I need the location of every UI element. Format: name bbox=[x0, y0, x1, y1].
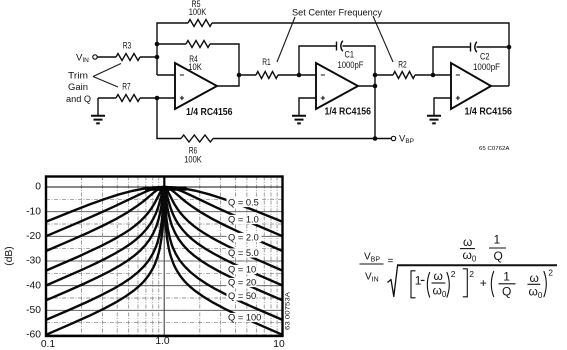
chart horizontal gridlines bbox=[46, 187, 283, 335]
svg-text:ω0: ω0 bbox=[529, 285, 543, 301]
svg-text:R3: R3 bbox=[123, 41, 132, 52]
svg-text:-50: -50 bbox=[26, 305, 41, 316]
svg-text:Q = 10: Q = 10 bbox=[228, 264, 256, 274]
svg-text:ω: ω bbox=[530, 271, 539, 285]
wire: top feedback right segment down to U3 output bbox=[212, 23, 509, 86]
wire: R1 to U2 minus input bbox=[278, 74, 316, 76]
svg-text:Q = 50: Q = 50 bbox=[228, 291, 256, 301]
svg-text:1: 1 bbox=[503, 270, 510, 284]
svg-text:10: 10 bbox=[273, 339, 285, 350]
curve Q=0.5 bbox=[46, 187, 283, 222]
svg-text:Q: Q bbox=[494, 249, 503, 263]
svg-text:Gain: Gain bbox=[68, 82, 88, 93]
svg-text:ω0: ω0 bbox=[433, 284, 447, 300]
svg-text:100K: 100K bbox=[189, 7, 207, 18]
leader line Set to R1 bbox=[277, 17, 295, 62]
eq denominator bracket [ bbox=[411, 271, 416, 298]
svg-text:-40: -40 bbox=[26, 280, 41, 291]
chart border bbox=[46, 177, 283, 337]
svg-text:and Q: and Q bbox=[66, 94, 91, 105]
resistor R1 bbox=[256, 72, 278, 79]
chart: frequency response plot bbox=[4, 177, 292, 350]
svg-text:ω: ω bbox=[434, 269, 443, 283]
chart Q labels bbox=[227, 198, 262, 207]
svg-text:Q = 20: Q = 20 bbox=[228, 277, 256, 287]
svg-text:63 00753A: 63 00753A bbox=[286, 292, 292, 330]
equation VBP/VIN transfer function bbox=[360, 233, 558, 301]
resistor R3 bbox=[116, 54, 140, 61]
svg-text:Q = 2.0: Q = 2.0 bbox=[228, 232, 259, 242]
curve Q=5.0 bbox=[46, 187, 283, 271]
svg-text:Q = 1.0: Q = 1.0 bbox=[228, 214, 259, 224]
wire: R3 to summing node bbox=[140, 56, 157, 58]
ground G3 bbox=[427, 116, 441, 124]
svg-text:ω0: ω0 bbox=[463, 248, 477, 264]
op-amp U1 bbox=[175, 63, 217, 109]
svg-text:=: = bbox=[388, 256, 394, 267]
op-amp U3 bbox=[451, 63, 491, 109]
ground G2 wire bbox=[299, 98, 316, 115]
svg-text:Q = 0.5: Q = 0.5 bbox=[228, 197, 259, 207]
wire: C1 feedback left bbox=[299, 46, 336, 75]
eq radical sign bbox=[388, 266, 398, 297]
wire: VIN to R3 bbox=[97, 56, 116, 58]
svg-text:1/4 RC4156: 1/4 RC4156 bbox=[325, 107, 372, 118]
curve Q=20 bbox=[46, 187, 283, 300]
wire: to R2 bbox=[375, 74, 393, 76]
svg-text:R2: R2 bbox=[398, 60, 407, 71]
wire: bottom feedback to VBP terminal bbox=[213, 138, 391, 140]
resistor R2 bbox=[393, 72, 415, 79]
svg-text:65 C0762A: 65 C0762A bbox=[479, 146, 510, 152]
terminal VIN bbox=[93, 55, 97, 59]
svg-text:0.1: 0.1 bbox=[41, 339, 56, 350]
curve Q=100 bbox=[46, 187, 283, 335]
terminal VBP bbox=[391, 136, 395, 140]
wire: U3 output bbox=[491, 85, 509, 87]
wire: U1 output to R1 bbox=[239, 74, 256, 76]
svg-text:VBP: VBP bbox=[364, 252, 380, 264]
wire: C2 feedback right bbox=[477, 46, 510, 48]
eq bracket ] bbox=[463, 269, 468, 297]
svg-text:1000pF: 1000pF bbox=[338, 60, 364, 71]
svg-text:Set Center Frequency: Set Center Frequency bbox=[292, 8, 382, 18]
svg-text:Trim: Trim bbox=[68, 70, 88, 81]
curve Q=1.0 bbox=[46, 187, 283, 236]
svg-text:2: 2 bbox=[451, 269, 456, 279]
svg-text:C2: C2 bbox=[480, 52, 490, 63]
wire: plus node down to bottom feedback bbox=[157, 98, 181, 139]
resistor R6 bbox=[181, 135, 213, 142]
svg-text:2: 2 bbox=[469, 269, 474, 279]
ground G1 drop wire bbox=[97, 98, 99, 115]
svg-text:ω: ω bbox=[463, 235, 472, 249]
op-amp U2 bbox=[316, 63, 358, 109]
svg-text:1/4 RC4156: 1/4 RC4156 bbox=[186, 107, 233, 118]
svg-text:1.0: 1.0 bbox=[155, 336, 170, 347]
wire: C2 feedback left bbox=[433, 47, 470, 75]
eq paren ( second term bbox=[491, 271, 494, 297]
wire: ground to R7 bbox=[98, 97, 116, 99]
svg-text:+: + bbox=[480, 276, 487, 290]
eq main fraction bar bbox=[397, 264, 557, 266]
wire: U2 output bbox=[358, 85, 375, 87]
leader line Trim to R7 bbox=[93, 77, 118, 88]
junction dots stage1 bbox=[155, 42, 160, 47]
wire: R4 right side down to U1 output bbox=[210, 44, 239, 86]
ground G1 bbox=[91, 116, 105, 124]
svg-text:2: 2 bbox=[548, 268, 553, 278]
eq paren ( bbox=[427, 272, 430, 298]
resistor R5 bbox=[188, 20, 212, 27]
node dot U2 input bbox=[297, 73, 302, 78]
capacitor C2 bbox=[470, 43, 472, 52]
curve bundle flat top at peak bbox=[145, 186, 187, 190]
svg-text:-10: -10 bbox=[26, 206, 41, 217]
curve Q=2.0 bbox=[46, 187, 283, 251]
eq paren ) bbox=[447, 272, 450, 298]
svg-text:Q: Q bbox=[502, 285, 511, 299]
ground G2 bbox=[292, 116, 306, 124]
leader line Set to R2 bbox=[373, 16, 393, 62]
node dot U3 input bbox=[431, 73, 436, 78]
wire: C1 feedback right down to bottom wire bbox=[343, 46, 376, 139]
svg-text:VBP: VBP bbox=[399, 134, 414, 146]
svg-text:Q = 100: Q = 100 bbox=[228, 312, 261, 322]
svg-text:100K: 100K bbox=[184, 155, 202, 166]
svg-text:1/4 RC4156: 1/4 RC4156 bbox=[465, 106, 513, 117]
svg-text:-60: -60 bbox=[26, 330, 41, 341]
wire: minus input lead U1 bbox=[157, 74, 175, 76]
svg-text:-30: -30 bbox=[26, 256, 41, 267]
eq paren ) second term bbox=[544, 271, 547, 297]
1.0 gridline dark segment above 0dB bbox=[163, 177, 165, 189]
wire: R2 to U3 minus input bbox=[415, 74, 451, 76]
wire: R4 left branch from node bbox=[157, 43, 186, 45]
resistor R7 bbox=[116, 95, 140, 102]
svg-text:Q = 5.0: Q = 5.0 bbox=[228, 248, 259, 258]
svg-text:1: 1 bbox=[494, 233, 501, 247]
leader line Trim to R3 bbox=[93, 64, 121, 77]
node dot C2/top feedback bbox=[507, 45, 512, 50]
svg-text:0: 0 bbox=[35, 182, 41, 193]
resistor R4 bbox=[186, 41, 210, 48]
junction dots stage2 bbox=[373, 73, 378, 78]
curve Q=50 bbox=[46, 187, 283, 320]
svg-text:VIN: VIN bbox=[76, 52, 89, 64]
svg-text:(dB): (dB) bbox=[4, 246, 15, 265]
wire: R7 to plus input U1 bbox=[140, 97, 175, 99]
wire: top feedback left vertical and lead to R5 bbox=[157, 23, 188, 75]
svg-text:VIN: VIN bbox=[365, 272, 379, 284]
capacitor C1 bbox=[336, 42, 338, 51]
svg-text:1000pF: 1000pF bbox=[473, 62, 500, 73]
svg-text:-20: -20 bbox=[26, 231, 41, 242]
svg-text:R1: R1 bbox=[262, 57, 271, 68]
ground G3 wire bbox=[434, 98, 451, 115]
svg-text:R7: R7 bbox=[122, 82, 131, 93]
chart vertical gridlines bbox=[82, 177, 278, 337]
curve Q=10 bbox=[46, 187, 283, 286]
